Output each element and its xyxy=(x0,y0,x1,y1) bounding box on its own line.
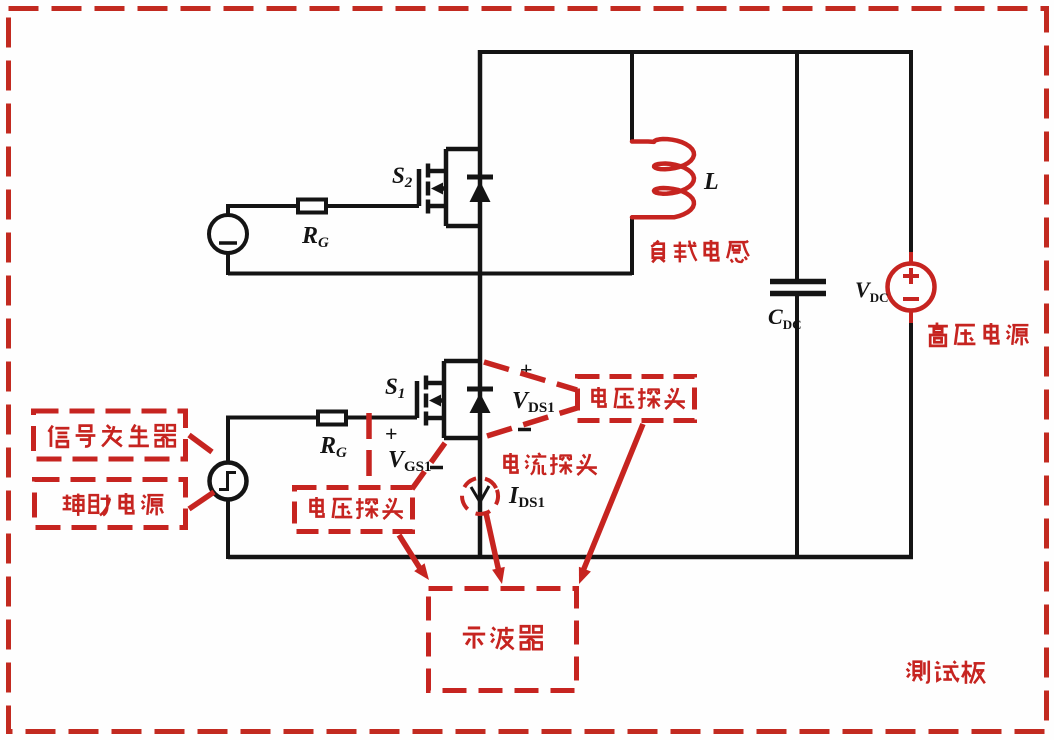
svg-text:+: + xyxy=(385,421,398,446)
box 信号发生器 (signal generator) xyxy=(34,411,186,459)
resistor RG (upper) xyxy=(298,200,326,213)
wire top bus xyxy=(478,50,913,54)
current probe (red dashed circle) xyxy=(457,473,503,519)
box 辅助电源 (auxiliary supply) xyxy=(35,480,186,528)
arrow VGS probe to oscilloscope xyxy=(399,535,421,570)
wire inductor branch top xyxy=(630,50,634,141)
box 示波器 (oscilloscope) xyxy=(429,589,577,691)
label 负载电感 (load inductor) xyxy=(651,240,749,262)
pointer dashed drain to VDS probe box xyxy=(484,362,577,390)
pointer dashed source to VDS probe box xyxy=(487,408,577,436)
svg-text:S1: S1 xyxy=(385,374,405,402)
wire VDC branch top xyxy=(909,50,913,263)
pointer dashed diagonal (source probe minus) xyxy=(412,443,445,489)
body diode D1 xyxy=(467,387,493,392)
svg-text:L: L xyxy=(703,169,719,195)
wire capacitor branch top xyxy=(795,50,799,279)
arrow VDS probe to oscilloscope xyxy=(583,424,643,571)
pointer dashed vertical (gate probe) xyxy=(366,413,372,487)
wire gate loop S1 top xyxy=(228,418,318,465)
wire mid bus (phase node to inductor) xyxy=(228,272,632,276)
transistor S1 (lower MOSFET, DUT) xyxy=(417,361,480,438)
resistor RG (lower) xyxy=(318,412,346,425)
svg-text:VGS1: VGS1 xyxy=(388,447,432,475)
wire VDC branch bottom xyxy=(909,311,913,557)
wire bottom bus xyxy=(228,555,913,560)
svg-text:VDS1: VDS1 xyxy=(512,388,555,416)
box 电压探头 right (VDS probe) xyxy=(578,377,695,421)
svg-text:VDC: VDC xyxy=(855,277,888,305)
voltage source V1 (gate driver, upper) xyxy=(209,215,247,253)
label 电流探头 (current probe) xyxy=(505,453,597,475)
wire capacitor branch bottom xyxy=(795,295,799,557)
wire source V2 bottom return xyxy=(226,498,230,559)
pointer dash aux to source xyxy=(189,492,214,509)
wire source V1 bottom return xyxy=(226,253,230,275)
voltage source V2 (pulse generator, lower) with step symbol xyxy=(210,463,247,500)
pointer dash sig-gen to source xyxy=(189,435,212,452)
svg-text:IDS1: IDS1 xyxy=(508,483,545,511)
label 测试板 (test board) xyxy=(907,661,985,684)
svg-text:S2: S2 xyxy=(392,163,413,191)
transistor S2 (upper MOSFET) xyxy=(419,149,480,226)
current arrow IDS1 (down) xyxy=(471,486,489,502)
source VDC (high-voltage supply, red circle) xyxy=(909,252,913,264)
capacitor CDC plates xyxy=(770,279,826,285)
wire main vertical (drain-source rail) xyxy=(478,50,483,557)
wire gate S1 to resistor xyxy=(346,416,417,420)
body diode D2 xyxy=(467,175,493,180)
arrow current probe to oscilloscope xyxy=(486,513,499,572)
wire gate loop S2 top xyxy=(228,206,298,215)
svg-text:RG: RG xyxy=(319,433,347,461)
box 电压探头 left (VGS probe) xyxy=(295,488,413,532)
inductor L (red coil) xyxy=(632,139,694,217)
label 高压电源 (HV supply) xyxy=(928,323,1028,346)
wire gate S2 to resistor xyxy=(326,204,419,208)
svg-text:RG: RG xyxy=(301,223,329,251)
wire inductor branch bottom xyxy=(630,216,634,275)
